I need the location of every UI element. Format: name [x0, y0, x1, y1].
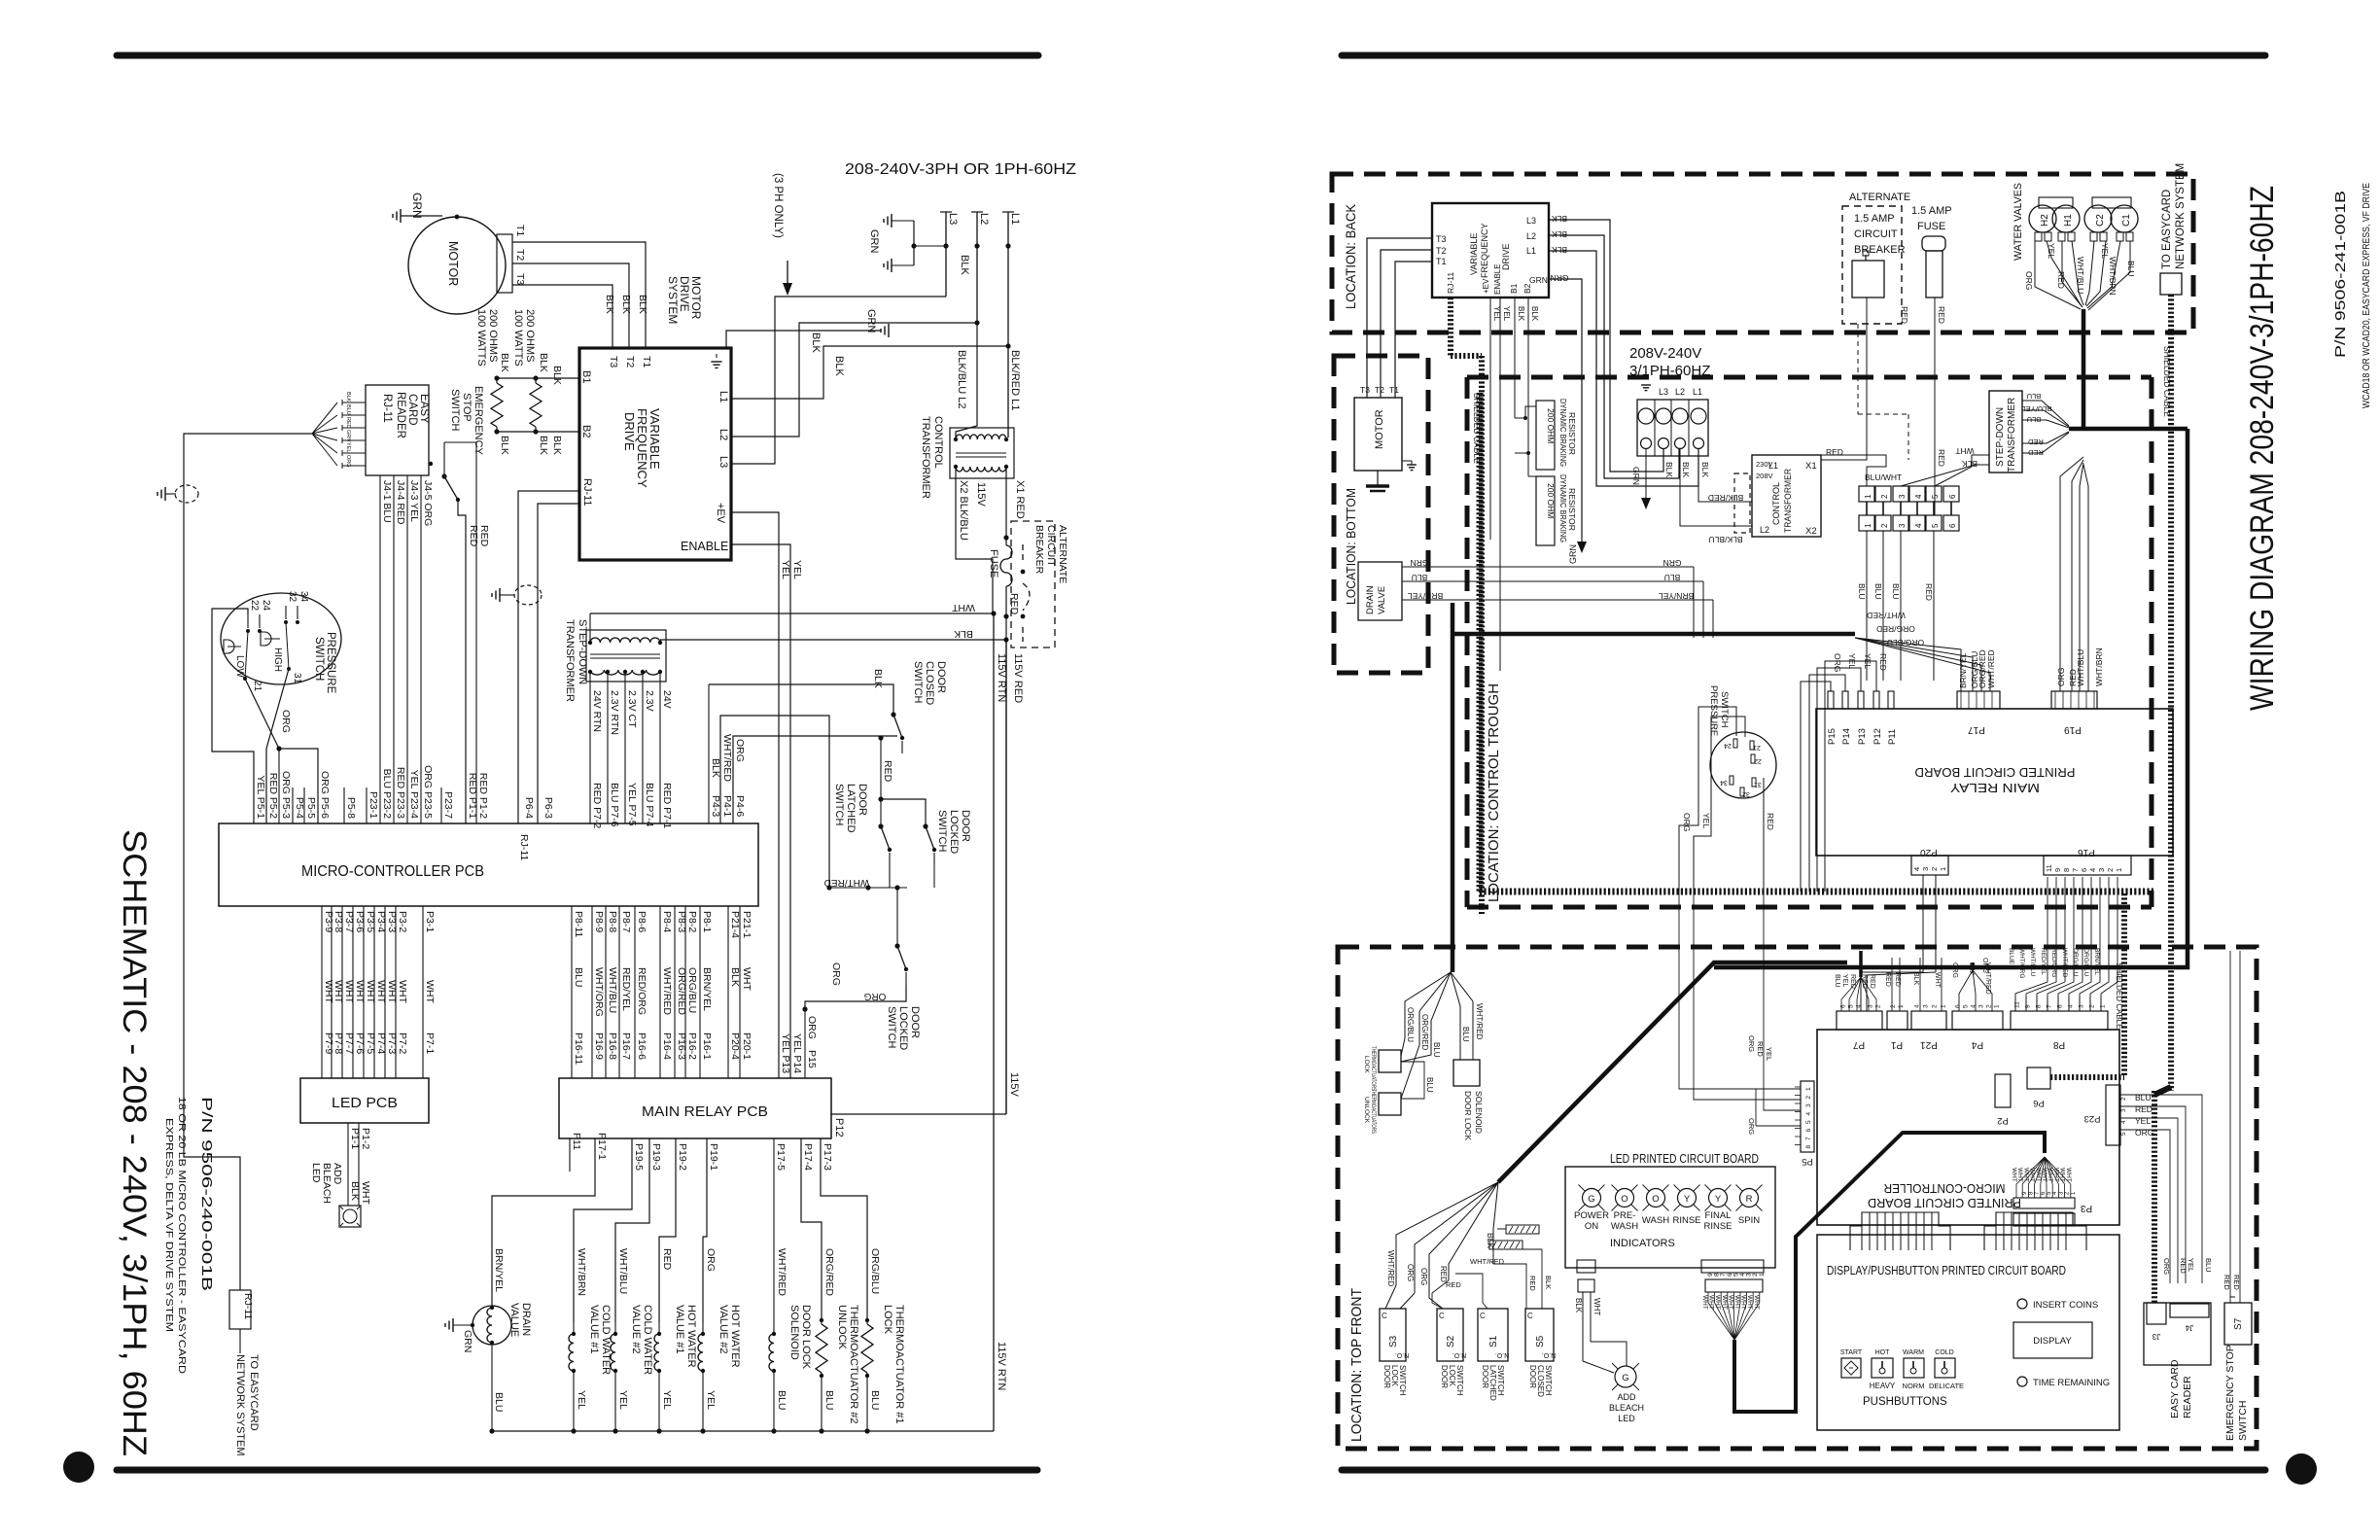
svg-text:2: 2 — [2120, 1097, 2127, 1101]
load THERMOACTUATOR #1 LOCK — [821, 1138, 867, 1322]
shielded cable to network system — [2168, 295, 2174, 1091]
svg-text:7: 7 — [2071, 868, 2080, 872]
svg-text:BLU P7-6: BLU P7-6 — [609, 783, 620, 827]
P8 connector micro — [2011, 1011, 2108, 1030]
svg-text:T2: T2 — [514, 249, 526, 261]
svg-text:P1-2: P1-2 — [360, 1128, 371, 1149]
svg-text:P8-7: P8-7 — [620, 911, 632, 932]
svg-text:ORG: ORG — [1951, 962, 1958, 978]
svg-text:RED: RED — [1894, 972, 1901, 987]
svg-text:L1: L1 — [1693, 387, 1702, 397]
P20 connector — [1911, 856, 1948, 875]
wire ORG branch to P5-6 — [279, 749, 318, 823]
svg-text:L3: L3 — [947, 213, 959, 225]
svg-text:RED: RED — [1766, 813, 1775, 830]
svg-text:RED P7-1: RED P7-1 — [661, 783, 673, 828]
svg-text:FUSE: FUSE — [988, 549, 999, 577]
easy card reader right page — [2144, 1303, 2211, 1365]
svg-text:YEL: YEL — [2135, 1116, 2151, 1126]
svg-text:RED: RED — [468, 525, 479, 547]
svg-text:TO EASYCARD: TO EASYCARD — [248, 1354, 260, 1431]
svg-text:6: 6 — [1948, 523, 1957, 528]
node 115V RTN rail — [1005, 640, 1007, 1114]
wires main relay P15-P12 up and left — [1801, 682, 1831, 892]
svg-text:X1: X1 — [1805, 461, 1817, 472]
svg-text:N.O.: N.O. — [1452, 1351, 1466, 1358]
load DOOR LOCK SOLENOID — [773, 1138, 775, 1322]
svg-text:BLK: BLK — [872, 669, 884, 688]
svg-text:N.O.: N.O. — [1542, 1351, 1556, 1358]
svg-text:SCHEMATIC - 208 - 240V, 3: SCHEMATIC - 208 - 240V, 3/1PH, 60HZ — [116, 829, 153, 1456]
wire L2 to VFD L2 — [731, 323, 977, 437]
svg-text:4: 4 — [1914, 523, 1923, 528]
svg-text:P16-2: P16-2 — [686, 1032, 698, 1060]
svg-text:TRANSFORMER: TRANSFORMER — [1783, 469, 1794, 533]
svg-text:32: 32 — [1742, 790, 1750, 797]
LED PCB pins P1-1 P1-2 to add bleach LED — [347, 1123, 349, 1206]
svg-text:HIGH: HIGH — [272, 647, 283, 672]
wires VFD T1 T2 T3 to motor — [1367, 238, 1432, 398]
fuse F1 — [1000, 545, 1012, 586]
svg-text:P3-2: P3-2 — [397, 911, 408, 932]
step-down secondary taps to micro P7 — [589, 672, 591, 823]
svg-text:WHT/BRN: WHT/BRN — [2108, 257, 2117, 296]
svg-text:2: 2 — [1932, 1004, 1939, 1008]
page border bar bottom-right — [1342, 1467, 2265, 1474]
svg-text:WHT: WHT — [375, 980, 387, 1003]
svg-text:2: 2 — [1805, 1096, 1812, 1100]
svg-text:9: 9 — [2053, 868, 2062, 872]
dashed box LOCATION TOP FRONT — [1338, 947, 2257, 1449]
svg-text:WHT: WHT — [1592, 1298, 1601, 1315]
resistor dynamic braking 200 OHM 2 — [1536, 476, 1555, 545]
svg-text:WHT: WHT — [1701, 1295, 1708, 1310]
svg-text:5: 5 — [2120, 1132, 2127, 1136]
card edge fingers left — [1850, 1212, 1950, 1250]
svg-text:100 WATTS: 100 WATTS — [475, 309, 487, 367]
svg-text:LOCATION: CONTROL TROUGH: LOCATION: CONTROL TROUGH — [1486, 683, 1502, 902]
svg-text:ORG P5-6: ORG P5-6 — [319, 771, 331, 819]
svg-text:1: 1 — [1994, 1004, 2001, 1008]
svg-text:3: 3 — [1923, 1004, 1930, 1008]
svg-text:C: C — [1480, 1312, 1486, 1320]
svg-text:3: 3 — [1898, 523, 1907, 528]
load HOT WATER VALUE #2 — [703, 1138, 707, 1322]
svg-text:P7: P7 — [1852, 1039, 1865, 1050]
svg-text:P23-1: P23-1 — [367, 791, 379, 819]
svg-text:200 OHM: 200 OHM — [1546, 408, 1556, 443]
easy card reader leads J4 — [379, 475, 381, 823]
svg-text:VALVE: VALVE — [1377, 586, 1387, 614]
svg-text:7: 7 — [1805, 1137, 1812, 1140]
svg-text:P6: P6 — [2033, 1098, 2045, 1108]
svg-text:READER: READER — [395, 392, 406, 438]
svg-text:P4: P4 — [1971, 1039, 1983, 1050]
svg-text:ALTERNATE: ALTERNATE — [1849, 192, 1910, 203]
svg-text:WCAD18 OR WCAD20, EASYCARD: WCAD18 OR WCAD20, EASYCARD EXPRESS, VF D… — [2362, 183, 2372, 408]
svg-text:C: C — [1382, 1312, 1387, 1320]
svg-text:LOCK: LOCK — [882, 1305, 893, 1335]
svg-text:YEL: YEL — [1765, 1047, 1773, 1061]
svg-text:TRANSFORMER: TRANSFORMER — [564, 619, 576, 702]
svg-text:HOT WATER: HOT WATER — [685, 1305, 697, 1368]
svg-text:NETWORK SYSTEM: NETWORK SYSTEM — [234, 1354, 246, 1456]
svg-text:P8-4: P8-4 — [661, 911, 673, 932]
svg-text:100 WATTS: 100 WATTS — [512, 309, 524, 367]
svg-text:RED: RED — [1924, 583, 1934, 601]
svg-text:DRIVE: DRIVE — [1501, 243, 1511, 270]
svg-text:MICRO-CONTROLLER PCB: MICRO-CONTROLLER PCB — [301, 863, 484, 880]
svg-text:4: 4 — [1912, 867, 1921, 871]
thermoactuators lock square — [1379, 1050, 1401, 1072]
svg-text:DISPLAY/PUSHBUTTON PRINTED C: DISPLAY/PUSHBUTTON PRINTED CIRCUIT BOARD — [1827, 1264, 2066, 1277]
wire WHT 115V RTN horizontal — [590, 612, 994, 614]
svg-text:WHT: WHT — [332, 980, 344, 1003]
svg-text:T1: T1 — [514, 225, 526, 236]
svg-text:WHT: WHT — [2011, 1168, 2017, 1182]
svg-text:P23-7: P23-7 — [442, 791, 454, 819]
svg-text:BLK: BLK — [1574, 1298, 1583, 1313]
page border bar top-right — [1342, 52, 2265, 59]
svg-text:BLK: BLK — [1962, 459, 1977, 469]
svg-text:BLK: BLK — [1912, 972, 1919, 986]
svg-text:L1: L1 — [1009, 213, 1021, 225]
svg-text:BLU: BLU — [2027, 392, 2042, 401]
svg-text:ORG: ORG — [2162, 1258, 2171, 1275]
svg-text:P3-7: P3-7 — [343, 911, 355, 932]
motor terminal box — [497, 234, 512, 293]
svg-text:RED/ORG: RED/ORG — [636, 967, 647, 1015]
chassis ground clamp on RJ-11 pair — [499, 588, 501, 602]
svg-text:HOT: HOT — [1875, 1349, 1891, 1356]
svg-text:BLK: BLK — [604, 295, 615, 314]
wire drain valve BLU to bus — [491, 1345, 493, 1431]
svg-text:S3: S3 — [1388, 1335, 1399, 1347]
svg-text:BLK: BLK — [637, 295, 648, 314]
wire VFD GRN — [1549, 279, 1582, 542]
svg-text:P21-4: P21-4 — [729, 911, 741, 938]
svg-text:P3-1: P3-1 — [424, 911, 436, 932]
svg-text:RED P5-2: RED P5-2 — [267, 773, 279, 819]
svg-text:BLU: BLU — [1664, 573, 1681, 582]
svg-text:WHT: WHT — [1708, 1295, 1715, 1310]
main relay top pins P15-P11 — [1828, 691, 1834, 709]
svg-text:4: 4 — [1971, 1004, 1977, 1008]
wires VFD L3 L2 L1 to terminal block — [1549, 220, 1663, 472]
svg-text:RESISTOR: RESISTOR — [1567, 488, 1576, 531]
svg-text:BLK: BLK — [551, 366, 563, 385]
transformer T1 control transformer — [950, 428, 1014, 478]
wire terminal L1 to transformer — [1698, 449, 1752, 502]
svg-text:WHT: WHT — [2016, 1168, 2023, 1182]
svg-text:P17-5: P17-5 — [775, 1143, 787, 1171]
svg-text:P4-1: P4-1 — [721, 795, 733, 817]
svg-text:BLU: BLU — [1834, 974, 1840, 988]
svg-text:DOOR: DOOR — [935, 661, 947, 693]
svg-text:RED: RED — [1008, 593, 1020, 615]
svg-text:T3: T3 — [514, 273, 526, 285]
thick cable display to micro P3 — [1734, 1133, 2045, 1412]
dashed 208V tap jog — [1734, 473, 1750, 533]
node L3 rail — [945, 212, 947, 297]
node 115V RED rail — [993, 613, 995, 1431]
svg-text:PUSHBUTTONS: PUSHBUTTONS — [1863, 1396, 1947, 1408]
svg-text:P1: P1 — [1890, 1039, 1903, 1050]
svg-text:BLU P23-2: BLU P23-2 — [381, 769, 393, 820]
svg-text:WHT/RED: WHT/RED — [721, 734, 733, 782]
wire easycard to network down-left — [184, 434, 312, 1290]
svg-text:DOOR: DOOR — [909, 1006, 921, 1038]
VFD chassis ground wire GRN — [726, 331, 881, 348]
svg-text:(3 PH ONLY): (3 PH ONLY) — [772, 173, 784, 238]
svg-text:ORG: ORG — [1747, 1118, 1756, 1135]
svg-text:WHT: WHT — [424, 980, 436, 1003]
pressure switch wires ORG YEL RED — [1679, 707, 1736, 892]
svg-text:LOCK: LOCK — [1363, 1056, 1370, 1073]
svg-text:RED P1-2: RED P1-2 — [477, 773, 489, 819]
wire terminal L2 to transformer X2 — [1680, 449, 1752, 526]
wire YEL P13 from VFD +EV — [731, 512, 779, 1078]
svg-text:P8-8: P8-8 — [607, 911, 618, 932]
svg-text:P17-4: P17-4 — [802, 1143, 814, 1171]
svg-text:BLK: BLK — [1530, 306, 1539, 322]
wire YEL P14 from VFD ENABLE — [731, 544, 790, 1078]
wire 115V RTN bus — [492, 1430, 994, 1432]
svg-text:6: 6 — [2080, 868, 2088, 872]
svg-text:T3: T3 — [1360, 385, 1370, 395]
svg-text:ORG/BLU: ORG/BLU — [2082, 948, 2089, 977]
svg-text:P16: P16 — [2078, 847, 2095, 857]
svg-text:ENABLE: ENABLE — [1493, 263, 1502, 295]
svg-text:GRN: GRN — [868, 229, 880, 254]
svg-text:TRANSFORMER: TRANSFORMER — [2007, 398, 2017, 472]
svg-text:P17: P17 — [1968, 724, 1985, 735]
svg-text:5: 5 — [1805, 1120, 1812, 1124]
svg-text:3: 3 — [2079, 1004, 2085, 1008]
svg-text:5: 5 — [1963, 1004, 1970, 1008]
svg-text:DOOR LOCK: DOOR LOCK — [800, 1305, 812, 1370]
svg-text:BRN/YEL: BRN/YEL — [493, 1248, 505, 1292]
svg-text:P17-3: P17-3 — [822, 1143, 833, 1171]
svg-text:1.5 AMP: 1.5 AMP — [1854, 213, 1895, 225]
svg-text:34: 34 — [1720, 779, 1728, 786]
svg-text:BLK: BLK — [345, 392, 351, 402]
wire B2 to resistors — [497, 431, 579, 433]
svg-text:SWITCH: SWITCH — [1455, 1365, 1464, 1396]
svg-text:P7-6: P7-6 — [354, 1032, 366, 1054]
svg-text:BLK: BLK — [1552, 214, 1567, 224]
svg-text:EMERGENCY STOP: EMERGENCY STOP — [2224, 1345, 2236, 1441]
svg-text:BRN/YEL: BRN/YEL — [701, 967, 713, 1011]
svg-text:P20: P20 — [1920, 847, 1938, 857]
svg-text:P13: P13 — [1857, 728, 1868, 745]
svg-text:208V-240V: 208V-240V — [1629, 345, 1701, 362]
svg-text:WARM: WARM — [1903, 1349, 1924, 1356]
svg-text:SWITCH: SWITCH — [1496, 1365, 1505, 1396]
svg-text:ALTERNATE: ALTERNATE — [1057, 525, 1068, 583]
svg-text:DOOR: DOOR — [1528, 1365, 1537, 1388]
svg-text:BLU: BLU — [493, 1392, 505, 1412]
svg-text:SOLENOID: SOLENOID — [788, 1305, 800, 1360]
svg-text:BLU: BLU — [1461, 1027, 1470, 1042]
svg-text:X2 BLK/BLU: X2 BLK/BLU — [958, 480, 969, 541]
insert coins indicator — [2017, 1299, 2027, 1309]
svg-text:BLK: BLK — [810, 332, 822, 353]
dashed wire from breaker — [1857, 324, 1859, 414]
svg-text:WHT: WHT — [741, 967, 752, 991]
svg-text:4: 4 — [2120, 1120, 2127, 1124]
svg-text:BLK: BLK — [499, 353, 510, 372]
wire 115V to main relay P12 — [831, 1113, 1006, 1115]
svg-text:T3: T3 — [1436, 234, 1447, 244]
svg-text:BLU: BLU — [573, 967, 584, 987]
svg-text:S7: S7 — [2233, 1317, 2244, 1330]
svg-text:115V: 115V — [1008, 1072, 1020, 1098]
svg-text:G: G — [1622, 1373, 1628, 1383]
svg-text:6: 6 — [2057, 1004, 2064, 1008]
svg-text:RJ-11: RJ-11 — [518, 834, 530, 860]
display readout — [2013, 1322, 2092, 1358]
svg-text:ORG: ORG — [2135, 1128, 2153, 1137]
svg-text:8: 8 — [1805, 1145, 1812, 1149]
svg-text:YEL: YEL — [345, 442, 351, 452]
svg-text:ENABLE: ENABLE — [681, 540, 728, 553]
svg-text:ORG/RED: ORG/RED — [1420, 1014, 1429, 1051]
svg-text:WHT: WHT — [1753, 1295, 1760, 1310]
svg-text:WHT/RED: WHT/RED — [1986, 649, 1996, 688]
svg-text:1: 1 — [1939, 867, 1947, 871]
svg-text:WHT: WHT — [1733, 1295, 1740, 1310]
svg-text:WHT: WHT — [2065, 1168, 2072, 1182]
svg-text:J4-3 YEL: J4-3 YEL — [408, 480, 420, 522]
svg-text:YEL: YEL — [791, 560, 803, 579]
svg-text:RED: RED — [2135, 1104, 2152, 1114]
svg-text:C1: C1 — [2121, 214, 2132, 227]
svg-text:SWITCH: SWITCH — [833, 784, 845, 825]
svg-text:RJ-11: RJ-11 — [242, 1293, 254, 1319]
svg-text:MAIN RELAY PCB: MAIN RELAY PCB — [642, 1103, 768, 1120]
svg-text:4: 4 — [2088, 868, 2097, 872]
svg-text:RED: RED — [1937, 449, 1946, 467]
svg-text:ORG/BLU: ORG/BLU — [1887, 638, 1924, 647]
svg-text:+EV: +EV — [1482, 278, 1490, 294]
svg-text:BLK: BLK — [620, 295, 632, 314]
svg-text:WHT: WHT — [2029, 1168, 2036, 1182]
svg-text:P21-1: P21-1 — [741, 911, 752, 938]
svg-text:LATCHED: LATCHED — [845, 784, 857, 833]
svg-text:YEL: YEL — [1492, 306, 1501, 322]
svg-text:COLD WATER: COLD WATER — [600, 1305, 612, 1375]
svg-text:GRN: GRN — [1529, 275, 1548, 285]
svg-text:WHT: WHT — [343, 980, 355, 1003]
svg-text:T1: T1 — [1436, 257, 1447, 266]
svg-text:C: C — [1527, 1312, 1533, 1320]
svg-text:MOTOR: MOTOR — [446, 241, 460, 286]
wires P23 to J4 — [2120, 1095, 2202, 1283]
LED PCB box — [300, 1078, 429, 1123]
svg-text:P5: P5 — [1802, 1156, 1813, 1167]
control trough hatched wall — [1477, 393, 1484, 892]
svg-text:P16-8: P16-8 — [607, 1032, 618, 1060]
svg-text:34: 34 — [298, 591, 309, 603]
svg-text:EXPRESS, DELTA VF DRIVE SYSTEM: EXPRESS, DELTA VF DRIVE SYSTEM — [163, 1118, 175, 1332]
svg-text:Y: Y — [1684, 1194, 1691, 1205]
svg-text:24V RTN: 24V RTN — [591, 690, 603, 732]
svg-text:DYNAMIC BRAKING: DYNAMIC BRAKING — [1558, 399, 1567, 467]
door lock solenoid square — [1453, 1060, 1480, 1086]
svg-text:LOW: LOW — [234, 655, 245, 678]
svg-text:P19: P19 — [2064, 724, 2082, 735]
svg-text:P7-1: P7-1 — [424, 1032, 436, 1054]
svg-text:BRN/YEL: BRN/YEL — [2093, 948, 2100, 975]
svg-text:POWER: POWER — [1574, 1210, 1609, 1221]
svg-text:BLK: BLK — [1664, 462, 1674, 477]
wire BLK to step-down — [660, 639, 1006, 641]
svg-text:BLK: BLK — [551, 436, 563, 455]
svg-text:BLK/BLU L2: BLK/BLU L2 — [956, 350, 967, 409]
svg-text:6: 6 — [1840, 1004, 1847, 1008]
svg-text:200 OHMS: 200 OHMS — [524, 309, 536, 362]
svg-text:RED: RED — [1878, 653, 1888, 671]
page border bar top-left — [117, 52, 1038, 59]
svg-text:WHT: WHT — [1721, 1295, 1728, 1310]
pressure switch right page — [1710, 732, 1776, 798]
LED board connector stubs — [1577, 1260, 1595, 1273]
svg-text:24: 24 — [261, 600, 271, 612]
svg-text:RED P23-3: RED P23-3 — [395, 767, 406, 819]
display pushbutton board — [1817, 1235, 2119, 1430]
svg-text:WHT: WHT — [1740, 1295, 1747, 1310]
wire B1 to resistors — [497, 377, 579, 379]
svg-text:200 OHM: 200 OHM — [1546, 483, 1556, 518]
svg-text:J4: J4 — [2185, 1323, 2193, 1332]
svg-text:P2: P2 — [1997, 1115, 2009, 1126]
svg-text:J3: J3 — [2152, 1332, 2160, 1341]
wires P19 connector up to water valve cable — [2060, 457, 2083, 691]
svg-text:S2: S2 — [1446, 1335, 1456, 1347]
svg-text:DELICATE: DELICATE — [1929, 1382, 1964, 1390]
svg-text:DISPLAY: DISPLAY — [2033, 1336, 2072, 1347]
svg-text:P8-2: P8-2 — [686, 911, 698, 932]
svg-text:LOCK: LOCK — [1390, 1365, 1399, 1386]
svg-text:3: 3 — [1978, 1004, 1985, 1008]
svg-text:P17-1: P17-1 — [596, 1133, 608, 1160]
svg-text:RJ-11: RJ-11 — [381, 394, 393, 423]
svg-text:BLU/WHT: BLU/WHT — [1865, 472, 1902, 482]
alternate circuit breaker dashed box — [1011, 521, 1055, 647]
wire pressure switch 21 to ORG node — [245, 679, 279, 749]
wire S2 chain RED WHT/RED — [1432, 1280, 1449, 1309]
svg-text:31: 31 — [292, 673, 302, 684]
svg-text:ORG: ORG — [280, 710, 292, 733]
P2 connector micro — [1995, 1074, 2011, 1107]
svg-text:LED: LED — [310, 1163, 322, 1183]
P23 connector micro — [2106, 1085, 2120, 1145]
svg-text:N.O.: N.O. — [1395, 1351, 1409, 1358]
svg-text:WHT: WHT — [2022, 1168, 2029, 1182]
wire ORG from P4-6 to lower switch — [733, 736, 897, 823]
svg-text:5: 5 — [1931, 523, 1940, 528]
svg-text:8: 8 — [2036, 1004, 2043, 1008]
svg-text:LOCATION: TOP FRONT: LOCATION: TOP FRONT — [1348, 1288, 1365, 1442]
svg-text:L2: L2 — [978, 213, 990, 225]
step-down output fan to junction — [2022, 401, 2069, 426]
svg-text:T1: T1 — [641, 356, 652, 367]
svg-text:COLD WATER: COLD WATER — [642, 1305, 653, 1375]
svg-text:YEL P14: YEL P14 — [791, 1033, 803, 1073]
wire WHT/RED to micro P4-1 — [720, 716, 829, 888]
svg-text:LOCKED: LOCKED — [897, 1006, 909, 1050]
